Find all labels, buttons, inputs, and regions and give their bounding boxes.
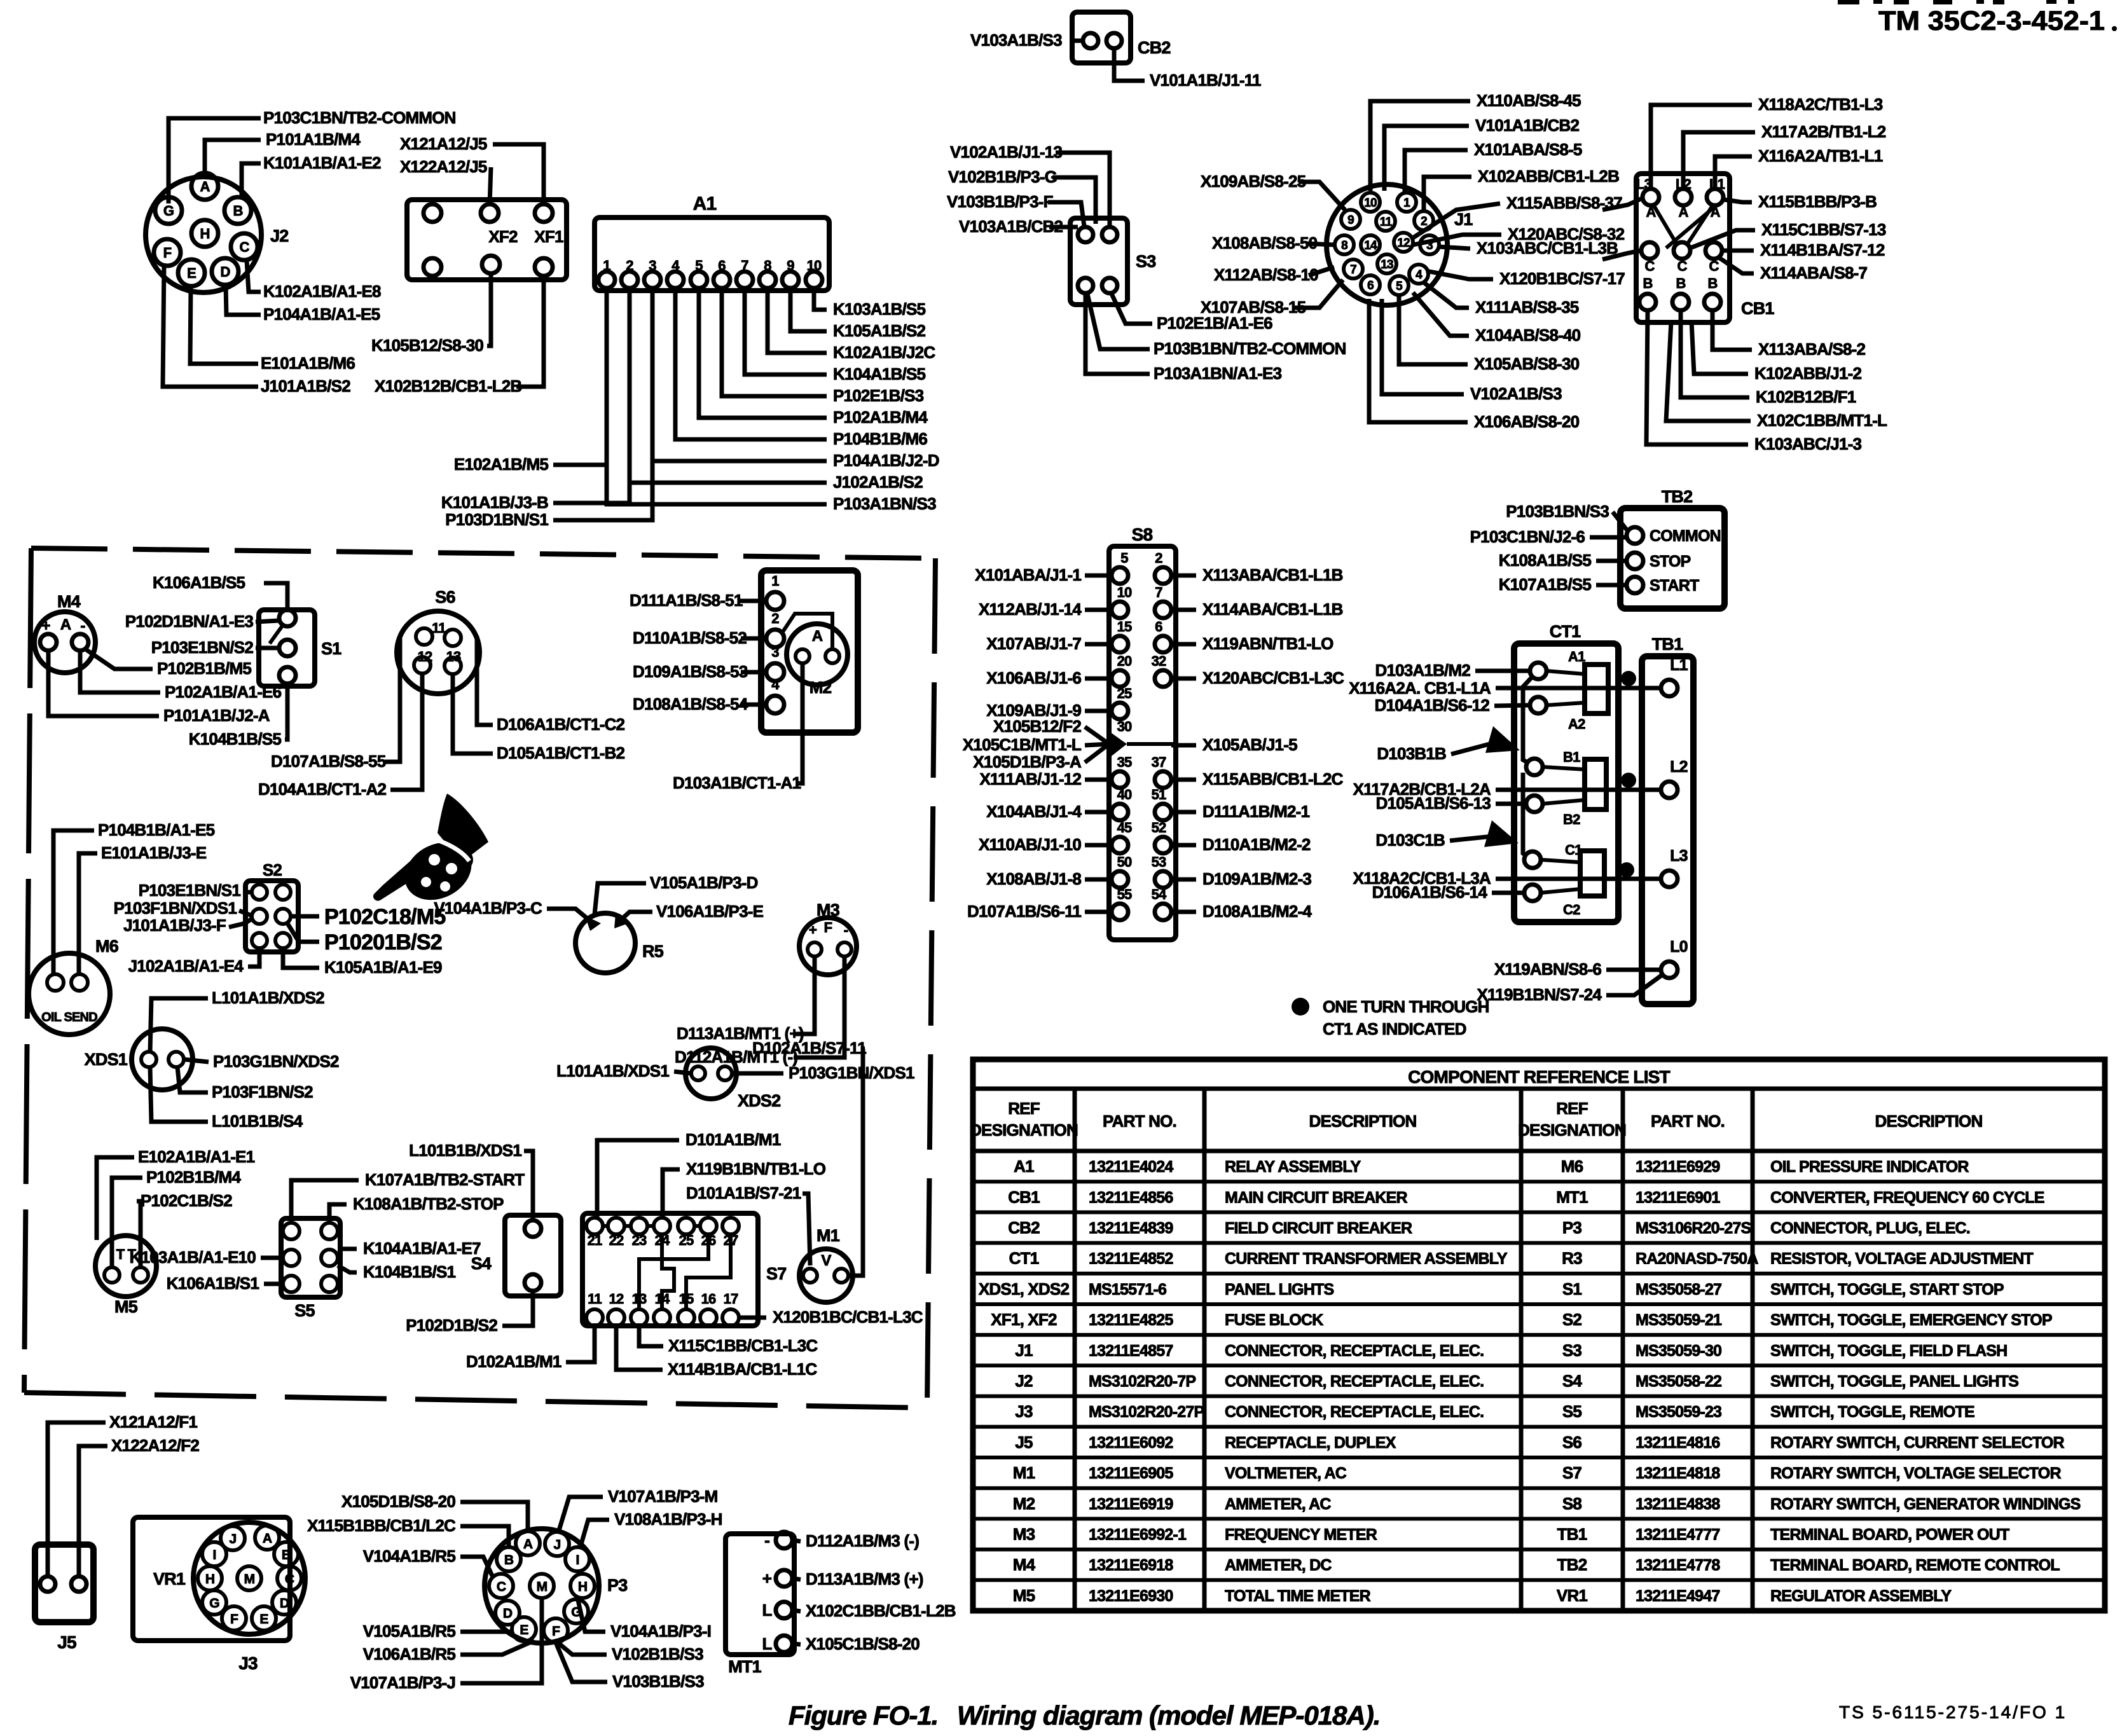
svg-text:S4: S4	[1562, 1372, 1583, 1391]
svg-text:13211E4024: 13211E4024	[1089, 1158, 1173, 1176]
panel light XDS1	[85, 1029, 193, 1090]
svg-text:X119B1BN/S7-24: X119B1BN/S7-24	[1477, 985, 1602, 1004]
svg-text:X105D1B/S8-20: X105D1B/S8-20	[341, 1492, 455, 1511]
svg-text:CURRENT TRANSFORMER ASSEMBLY: CURRENT TRANSFORMER ASSEMBLY	[1225, 1250, 1508, 1268]
relay assembly A1	[595, 193, 829, 291]
svg-text:B: B	[504, 1553, 514, 1567]
svg-text:D108A1B/S8-54: D108A1B/S8-54	[633, 694, 748, 713]
svg-text:MT1: MT1	[1556, 1187, 1588, 1206]
svg-text:13211E6992-1: 13211E6992-1	[1089, 1526, 1187, 1544]
wire X115C1BB/CB1-L3C	[639, 1326, 663, 1346]
note one turn through CT1	[1292, 998, 1309, 1016]
svg-text:D109A1B/S8-53: D109A1B/S8-53	[633, 662, 748, 681]
wire K108A1B/TB2-STOP	[329, 1204, 347, 1223]
svg-text:X111AB/J1-12: X111AB/J1-12	[979, 769, 1081, 789]
svg-text:20: 20	[1117, 653, 1132, 669]
svg-text:X102B12B/CB1-L2B: X102B12B/CB1-L2B	[375, 376, 521, 396]
wire V107A1B/P3-M	[558, 1497, 603, 1533]
wire X119B1BN/TB1-LO	[663, 1169, 680, 1218]
svg-text:L101B1B/XDS1: L101B1B/XDS1	[409, 1141, 521, 1160]
svg-text:13211E6918: 13211E6918	[1089, 1557, 1173, 1574]
wire P102B1B/M4	[112, 1178, 142, 1267]
wire X101ABA/J1-1	[1085, 574, 1112, 578]
wire P104B1B/A1-E5	[53, 830, 94, 975]
svg-text:C: C	[239, 239, 249, 255]
wire D105A1B/S6-13 to CT1-B2	[1496, 802, 1526, 806]
svg-text:J1: J1	[1015, 1340, 1033, 1360]
wire X102C1BB/CB1-L2B to MT1	[792, 1610, 801, 1611]
wire X115ABB/S8-37	[1413, 203, 1500, 238]
svg-text:K108A1B/S5: K108A1B/S5	[1499, 551, 1592, 570]
svg-text:X115B1BB/P3-B: X115B1BB/P3-B	[1758, 192, 1877, 211]
svg-text:J2: J2	[270, 226, 288, 245]
svg-text:+: +	[762, 1569, 772, 1588]
wire X121A12/F1	[48, 1423, 106, 1576]
svg-text:CT1: CT1	[1009, 1249, 1039, 1268]
svg-text:B2: B2	[1563, 811, 1580, 827]
svg-text:SWITCH, TOGGLE, PANEL LIGHTS: SWITCH, TOGGLE, PANEL LIGHTS	[1770, 1373, 2018, 1391]
wire X105D1B/S8-20	[460, 1502, 528, 1531]
svg-text:D104A1B/CT1-A2: D104A1B/CT1-A2	[258, 780, 387, 799]
S1 switch blade	[270, 623, 284, 644]
svg-text:X120ABC/CB1-L3C: X120ABC/CB1-L3C	[1202, 668, 1344, 687]
svg-text:VR1: VR1	[153, 1569, 186, 1588]
svg-text:I: I	[212, 1548, 216, 1562]
svg-text:X105C1B/S8-20: X105C1B/S8-20	[806, 1634, 920, 1653]
wire X105C1B/MT1-L	[1085, 744, 1109, 745]
wire X102C1BB/MT1-L	[1666, 321, 1751, 421]
svg-text:X105AB/J1-5: X105AB/J1-5	[1202, 735, 1297, 754]
svg-text:P102D1BN/A1-E3: P102D1BN/A1-E3	[125, 612, 254, 631]
svg-text:X102C1BB/CB1-L2B: X102C1BB/CB1-L2B	[806, 1601, 956, 1620]
svg-text:V106A1B/R5: V106A1B/R5	[363, 1644, 456, 1664]
wire K101A1B/J3-B	[553, 288, 630, 503]
svg-text:K105B12/S8-30: K105B12/S8-30	[371, 336, 483, 355]
svg-text:CT1 AS INDICATED: CT1 AS INDICATED	[1323, 1019, 1466, 1038]
wire P102B1B/M5	[86, 650, 153, 669]
S8 wiper arrow at pin 30	[1109, 731, 1127, 758]
CT1 winding B	[1585, 759, 1606, 809]
wire X112AB/J1-14	[1085, 608, 1112, 612]
wire D113A1B/MT1 (+)	[794, 956, 815, 1034]
svg-text:F: F	[230, 1612, 238, 1627]
wire V104A1B/P3-C	[547, 909, 590, 921]
oil pressure indicator M6	[29, 937, 119, 1035]
svg-text:V: V	[821, 1252, 831, 1269]
wire D109A1B/S8-53	[741, 670, 766, 675]
svg-text:COMMON: COMMON	[1650, 527, 1721, 545]
wire X109AB/S8-25	[1299, 182, 1345, 210]
wire P102D1BN/A1-E3	[256, 621, 278, 622]
svg-text:X115C1BB/CB1-L3C: X115C1BB/CB1-L3C	[668, 1336, 818, 1355]
svg-text:D110A1B/M2-2: D110A1B/M2-2	[1202, 835, 1311, 854]
current transformer assembly CT1	[1514, 622, 1618, 922]
wire phase B line L2	[1496, 788, 1661, 792]
svg-text:X114B1BA/S7-12: X114B1BA/S7-12	[1760, 240, 1885, 259]
wire X105C1B/S8-20 to MT1	[792, 1644, 801, 1644]
svg-text:14: 14	[1364, 239, 1377, 252]
svg-text:CB1: CB1	[1741, 299, 1774, 318]
svg-text:K102ABB/J1-2: K102ABB/J1-2	[1754, 364, 1861, 383]
CB1 trip linkage lines	[1653, 205, 1678, 245]
M2 internal wire to pin 2	[782, 614, 832, 649]
svg-text:E101A1B/J3-E: E101A1B/J3-E	[101, 843, 207, 862]
component reference list table	[970, 1059, 2105, 1611]
svg-text:X105C1B/MT1-L: X105C1B/MT1-L	[963, 735, 1082, 754]
svg-text:X122A12/J5: X122A12/J5	[400, 157, 487, 176]
svg-text:K103A1B/S5: K103A1B/S5	[833, 300, 926, 319]
wire V107A1B/P3-J	[460, 1598, 542, 1683]
svg-text:11: 11	[1380, 216, 1393, 229]
dashed panel enclosure border right	[927, 558, 935, 1407]
svg-text:XDS1: XDS1	[85, 1050, 128, 1069]
svg-text:H: H	[205, 1572, 214, 1587]
toggle switch S1 start stop	[259, 610, 341, 686]
wire D106A1B/S6-14 to CT1-C2	[1492, 891, 1524, 895]
svg-text:P103A1BN/A1-E3: P103A1BN/A1-E3	[1154, 364, 1282, 383]
wire K103ABC/J1-3	[1646, 311, 1748, 444]
svg-text:B: B	[1707, 275, 1717, 291]
wire D110A1B/S8-52	[741, 637, 766, 641]
svg-text:S7: S7	[1562, 1463, 1582, 1482]
svg-text:E102A1B/M5: E102A1B/M5	[454, 455, 548, 474]
svg-text:D103B1B: D103B1B	[1377, 744, 1446, 763]
svg-text:P104B1B/A1-E5: P104B1B/A1-E5	[98, 820, 215, 839]
svg-text:L2: L2	[1670, 758, 1688, 776]
wire E101A1B/M6	[190, 286, 258, 364]
wire P102E1B/S3	[722, 288, 827, 396]
svg-text:S1: S1	[1562, 1279, 1582, 1299]
svg-text:13211E4818: 13211E4818	[1636, 1464, 1720, 1482]
svg-text:M1: M1	[1013, 1463, 1035, 1482]
svg-text:P101A1B/J2-A: P101A1B/J2-A	[163, 706, 270, 725]
svg-text:F: F	[824, 920, 832, 935]
wire X111AB/S8-35	[1424, 283, 1469, 308]
wire P103B1BN/S3 to TB2	[1613, 512, 1627, 530]
svg-text:J2: J2	[1015, 1372, 1033, 1391]
svg-text:P103C1BN/TB2-COMMON: P103C1BN/TB2-COMMON	[263, 108, 456, 127]
svg-text:X111AB/S8-35: X111AB/S8-35	[1475, 298, 1579, 317]
svg-text:X114B1BA/CB1-L1C: X114B1BA/CB1-L1C	[668, 1360, 817, 1379]
svg-text:A: A	[200, 179, 210, 195]
wire K107A1B/TB2-START	[291, 1180, 359, 1223]
wire D109A1B/M2-3	[1171, 878, 1196, 882]
svg-text:F: F	[552, 1624, 560, 1639]
svg-text:M2: M2	[810, 678, 832, 697]
connector J1	[1326, 184, 1473, 305]
svg-text:M: M	[244, 1572, 255, 1587]
ammeter M2 AC	[761, 570, 858, 733]
wire X102ABB/CB1-L2B	[1424, 177, 1471, 210]
svg-text:CONNECTOR, RECEPTACLE, ELEC.: CONNECTOR, RECEPTACLE, ELEC.	[1225, 1373, 1484, 1391]
svg-text:M: M	[537, 1580, 548, 1594]
svg-text:VR1: VR1	[1557, 1586, 1588, 1605]
svg-text:B: B	[1676, 275, 1685, 291]
one-turn dot L1	[1621, 671, 1636, 686]
svg-text:XF1: XF1	[534, 227, 563, 246]
svg-text:5: 5	[1120, 550, 1128, 566]
svg-text:K107A1B/TB2-START: K107A1B/TB2-START	[365, 1170, 525, 1189]
svg-text:X103ABC/CB1-L3B: X103ABC/CB1-L3B	[1477, 238, 1618, 258]
svg-text:K103A1B/A1-E10: K103A1B/A1-E10	[130, 1248, 256, 1267]
svg-text:MS35058-22: MS35058-22	[1636, 1373, 1721, 1391]
svg-text:AMMETER, DC: AMMETER, DC	[1225, 1557, 1332, 1574]
wire X108AB/S8-50	[1307, 244, 1334, 245]
svg-text:S7: S7	[766, 1264, 786, 1283]
wire P103B1BN/TB2-COMMON	[1087, 294, 1150, 349]
svg-text:REF: REF	[1008, 1099, 1040, 1118]
svg-text:-: -	[80, 617, 85, 635]
svg-text:55: 55	[1117, 886, 1132, 902]
svg-text:P101A1B/M4: P101A1B/M4	[266, 130, 361, 149]
panel light XDS2	[686, 1048, 780, 1110]
wire V103B1B/P3-F	[1048, 202, 1084, 226]
svg-text:J101A1B/J3-F: J101A1B/J3-F	[123, 916, 226, 935]
svg-text:V108A1B/P3-H: V108A1B/P3-H	[614, 1510, 722, 1529]
svg-text:L: L	[762, 1601, 772, 1620]
wire X115B1BB/CB1/L2C	[460, 1526, 509, 1547]
wire E101A1B/J3-E	[79, 853, 97, 974]
wire V102B1B/S3	[557, 1642, 607, 1655]
wire V102B1B/P3-G	[1052, 177, 1096, 224]
svg-text:L101A1B/XDS2: L101A1B/XDS2	[212, 988, 324, 1007]
wire D110A1B/M2-2	[1171, 843, 1196, 848]
svg-text:START: START	[1650, 577, 1699, 595]
wire D107A1B/S8-55	[385, 675, 400, 762]
svg-text:P103B1BN/TB2-COMMON: P103B1BN/TB2-COMMON	[1154, 339, 1346, 358]
svg-text:XDS2: XDS2	[738, 1091, 780, 1110]
svg-text:S8: S8	[1132, 525, 1153, 544]
svg-text:D111A1B/M2-1: D111A1B/M2-1	[1202, 802, 1310, 821]
svg-text:A1: A1	[1014, 1157, 1034, 1176]
wire D104A1B/CT1-A2	[390, 674, 422, 790]
svg-text:X101ABA/J1-1: X101ABA/J1-1	[975, 565, 1081, 584]
wire X112AB/S8-10	[1309, 267, 1334, 275]
wire E102A1B/A1-E1	[97, 1157, 134, 1240]
svg-text:AMMETER, AC: AMMETER, AC	[1225, 1495, 1331, 1513]
svg-text:13211E4825: 13211E4825	[1089, 1311, 1173, 1329]
wire J102A1B/S2	[630, 288, 827, 483]
wire D104A1B/S6-12 to CT1-A2	[1494, 705, 1529, 706]
svg-text:32: 32	[1152, 653, 1166, 669]
wire X109AB/J1-9	[1085, 709, 1112, 713]
CT1 internal wires B	[1543, 767, 1585, 769]
svg-text:D102A1B/S7-11: D102A1B/S7-11	[752, 1038, 866, 1057]
svg-text:X108AB/S8-50: X108AB/S8-50	[1212, 233, 1318, 252]
svg-text:SWITCH, TOGGLE, EMERGENCY STOP: SWITCH, TOGGLE, EMERGENCY STOP	[1770, 1311, 2052, 1329]
svg-text:PART NO.: PART NO.	[1651, 1112, 1725, 1131]
wire X106AB/S8-20	[1369, 299, 1468, 422]
svg-text:V103A1B/S3: V103A1B/S3	[970, 31, 1062, 50]
svg-text:MS35059-30: MS35059-30	[1636, 1342, 1721, 1360]
svg-text:X114ABA/S8-7: X114ABA/S8-7	[1760, 263, 1868, 282]
svg-text:D113A1B/M3 (+): D113A1B/M3 (+)	[806, 1569, 923, 1588]
svg-text:2: 2	[1421, 215, 1427, 228]
svg-text:40: 40	[1117, 787, 1132, 803]
svg-text:P104A1B/J2-D: P104A1B/J2-D	[833, 451, 939, 470]
wire K106A1B/S1	[264, 1282, 283, 1286]
svg-text:X122A12/F2: X122A12/F2	[111, 1436, 199, 1455]
one-turn dot L3	[1619, 862, 1634, 878]
svg-text:13211E4777: 13211E4777	[1636, 1526, 1719, 1544]
wire phase C line L3	[1496, 877, 1662, 881]
svg-text:M1: M1	[816, 1226, 840, 1245]
svg-text:1: 1	[1403, 196, 1410, 210]
wire X121A12/J5	[493, 144, 544, 205]
svg-text:ONE TURN THROUGH: ONE TURN THROUGH	[1323, 997, 1489, 1016]
wire X108AB/J1-8	[1085, 878, 1112, 882]
svg-text:Figure FO-1.: Figure FO-1.	[789, 1700, 938, 1730]
svg-text:V107A1B/P3-J: V107A1B/P3-J	[350, 1673, 455, 1692]
svg-text:X115ABB/CB1-L2C: X115ABB/CB1-L2C	[1202, 769, 1344, 789]
svg-text:X117A2B/TB1-L2: X117A2B/TB1-L2	[1761, 122, 1886, 141]
svg-text:K104A1B/S5: K104A1B/S5	[833, 364, 926, 383]
svg-text:E: E	[187, 265, 196, 281]
svg-text:M2: M2	[1013, 1494, 1035, 1513]
svg-text:H: H	[578, 1580, 587, 1594]
wire P103F1BN/S2	[177, 1067, 208, 1092]
wire E102A1B/M5	[553, 288, 607, 465]
svg-text:REGULATOR ASSEMBLY: REGULATOR ASSEMBLY	[1770, 1587, 1952, 1605]
svg-text:P103F1BN/XDS1: P103F1BN/XDS1	[114, 899, 237, 918]
wire K103A1B/S5	[814, 288, 827, 310]
svg-text:10: 10	[1117, 584, 1132, 600]
svg-text:MS35059-21: MS35059-21	[1636, 1311, 1722, 1329]
svg-text:RA20NASD-750A: RA20NASD-750A	[1636, 1250, 1758, 1268]
wire P103C1BN/J2-6	[1590, 535, 1625, 540]
svg-text:X120B1BC/CB1-L3C: X120B1BC/CB1-L3C	[773, 1307, 923, 1326]
svg-text:13211E6919: 13211E6919	[1089, 1495, 1173, 1513]
svg-text:A2: A2	[1568, 716, 1585, 732]
svg-text:25: 25	[1117, 685, 1132, 701]
svg-text:X106AB/J1-6: X106AB/J1-6	[986, 668, 1081, 687]
wire L101B1B/XDS1	[524, 1151, 533, 1220]
svg-text:D112A1B/M3 (-): D112A1B/M3 (-)	[806, 1531, 919, 1550]
svg-text:V105A1B/P3-D: V105A1B/P3-D	[650, 873, 758, 892]
svg-text:4: 4	[1416, 268, 1423, 282]
svg-text:E102A1B/A1-E1: E102A1B/A1-E1	[138, 1147, 255, 1166]
svg-text:X115C1BB/S7-13: X115C1BB/S7-13	[1761, 220, 1886, 239]
wire D106A1B/CT1-C2	[477, 675, 493, 725]
svg-text:12: 12	[418, 649, 432, 665]
wire X116A2A/TB1-L1	[1715, 156, 1752, 189]
svg-text:V105A1B/R5: V105A1B/R5	[363, 1622, 456, 1641]
svg-text:V107A1B/P3-M: V107A1B/P3-M	[608, 1487, 717, 1506]
svg-text:MS3102R20-7P: MS3102R20-7P	[1089, 1373, 1195, 1391]
svg-text:B: B	[282, 1548, 291, 1562]
svg-text:X119ABN/S8-6: X119ABN/S8-6	[1494, 960, 1602, 979]
svg-text:L101A1B/XDS1: L101A1B/XDS1	[556, 1061, 669, 1080]
svg-text:M6: M6	[95, 937, 119, 956]
wire D107A1B/S6-11	[1085, 910, 1112, 914]
svg-text:V103A1B/CB2: V103A1B/CB2	[959, 217, 1063, 236]
svg-text:13211E6905: 13211E6905	[1089, 1464, 1173, 1482]
wire X114ABA/S8-7	[1719, 258, 1754, 273]
svg-text:CB1: CB1	[1008, 1187, 1040, 1206]
svg-text:R5: R5	[642, 942, 664, 961]
svg-text:X116A2A/TB1-L1: X116A2A/TB1-L1	[1758, 146, 1883, 165]
svg-text:X118A2C/TB1-L3: X118A2C/TB1-L3	[1758, 95, 1883, 114]
svg-text:7: 7	[1155, 584, 1162, 600]
wire X104AB/S8-40	[1413, 293, 1469, 336]
wire D111A1B/S8-51	[738, 599, 766, 603]
svg-text:6: 6	[1367, 279, 1374, 293]
svg-text:X101ABA/S8-5: X101ABA/S8-5	[1474, 140, 1582, 159]
wire D101A1B/S7-21	[803, 1194, 810, 1265]
svg-text:CT1: CT1	[1550, 622, 1581, 641]
wire K106A1B/S5	[264, 583, 287, 609]
svg-text:XDS1, XDS2: XDS1, XDS2	[979, 1279, 1070, 1299]
svg-text:D106A1B/S6-14: D106A1B/S6-14	[1372, 883, 1488, 902]
toggle switch S4 panel lights	[471, 1215, 561, 1296]
wire D103B1B junction	[1451, 743, 1494, 754]
wire K102ABB/J1-2	[1691, 321, 1748, 374]
wire CB1 left entry upper	[1602, 198, 1642, 210]
svg-text:C2: C2	[1563, 902, 1580, 918]
svg-text:D101A1B/S7-21: D101A1B/S7-21	[686, 1183, 801, 1202]
svg-text:P104B1B/M6: P104B1B/M6	[833, 429, 927, 448]
svg-text:K103ABC/J1-3: K103ABC/J1-3	[1754, 434, 1861, 453]
wire X105D1B/P3-A	[1085, 744, 1109, 762]
wire V102A1B/J1-13	[1056, 153, 1110, 226]
svg-text:K108A1B/TB2-STOP: K108A1B/TB2-STOP	[353, 1194, 504, 1213]
dashed panel enclosure border bottom	[24, 1393, 927, 1408]
svg-text:J101A1B/S2: J101A1B/S2	[261, 376, 350, 396]
svg-text:S5: S5	[294, 1301, 315, 1320]
svg-text:CONVERTER, FREQUENCY 60 CYCLE: CONVERTER, FREQUENCY 60 CYCLE	[1770, 1188, 2044, 1206]
svg-text:CB2: CB2	[1008, 1218, 1040, 1237]
svg-text:P103B1BN/S3: P103B1BN/S3	[1506, 502, 1609, 521]
wire X105AB/J1-5	[1171, 743, 1196, 748]
wire phase A line L1	[1496, 686, 1661, 691]
svg-text:J102A1B/S2: J102A1B/S2	[833, 472, 923, 492]
wire P102E1B/A1-E6	[1112, 294, 1152, 324]
svg-text:X102C1BB/MT1-L: X102C1BB/MT1-L	[1757, 411, 1887, 430]
svg-text:K104A1B/A1-E7: K104A1B/A1-E7	[363, 1239, 481, 1258]
svg-text:X105B12/F2: X105B12/F2	[993, 717, 1081, 736]
wire D112A1B/MT1 (-)	[794, 956, 844, 1057]
wire X120B1BC/CB1-L3C from pin 17	[739, 1316, 766, 1320]
fuse block XF1 XF2	[407, 200, 567, 280]
wire X115C1BB/S7-13	[1690, 230, 1755, 248]
svg-text:P103D1BN/S1: P103D1BN/S1	[445, 510, 548, 529]
svg-text:A1: A1	[693, 193, 717, 214]
svg-text:5: 5	[1396, 280, 1403, 293]
svg-text:X104AB/J1-4: X104AB/J1-4	[986, 802, 1082, 821]
svg-text:P104A1B/A1-E5: P104A1B/A1-E5	[263, 305, 380, 324]
svg-text:12: 12	[609, 1291, 624, 1307]
svg-text:RESISTOR, VOLTAGE ADJUSTMENT: RESISTOR, VOLTAGE ADJUSTMENT	[1770, 1250, 2033, 1268]
svg-text:35: 35	[1117, 754, 1132, 770]
wire P104A1B/J2-D	[652, 288, 827, 461]
wire X105AB/S8-30	[1399, 295, 1468, 364]
svg-text:2: 2	[1155, 550, 1162, 566]
svg-text:A: A	[812, 628, 823, 645]
svg-text:TERMINAL BOARD, REMOTE CONTROL: TERMINAL BOARD, REMOTE CONTROL	[1770, 1557, 2060, 1574]
svg-text:X113ABA/CB1-L1B: X113ABA/CB1-L1B	[1202, 565, 1343, 584]
svg-text:K102B12B/F1: K102B12B/F1	[1756, 387, 1856, 406]
svg-text:S8: S8	[1562, 1494, 1582, 1513]
svg-text:CONNECTOR, PLUG, ELEC.: CONNECTOR, PLUG, ELEC.	[1770, 1220, 1970, 1237]
svg-text:54: 54	[1152, 886, 1167, 902]
svg-text:D: D	[280, 1596, 289, 1611]
svg-text:Wiring diagram (model MEP-018A: Wiring diagram (model MEP-018A).	[957, 1700, 1380, 1730]
svg-text:D102A1B/M1: D102A1B/M1	[466, 1352, 562, 1371]
svg-text:D107A1B/S8-55: D107A1B/S8-55	[271, 752, 386, 771]
wire K101A1B/A1-E2	[242, 163, 261, 197]
wire K102A1B/J2C	[768, 288, 827, 353]
svg-text:4: 4	[771, 677, 780, 692]
